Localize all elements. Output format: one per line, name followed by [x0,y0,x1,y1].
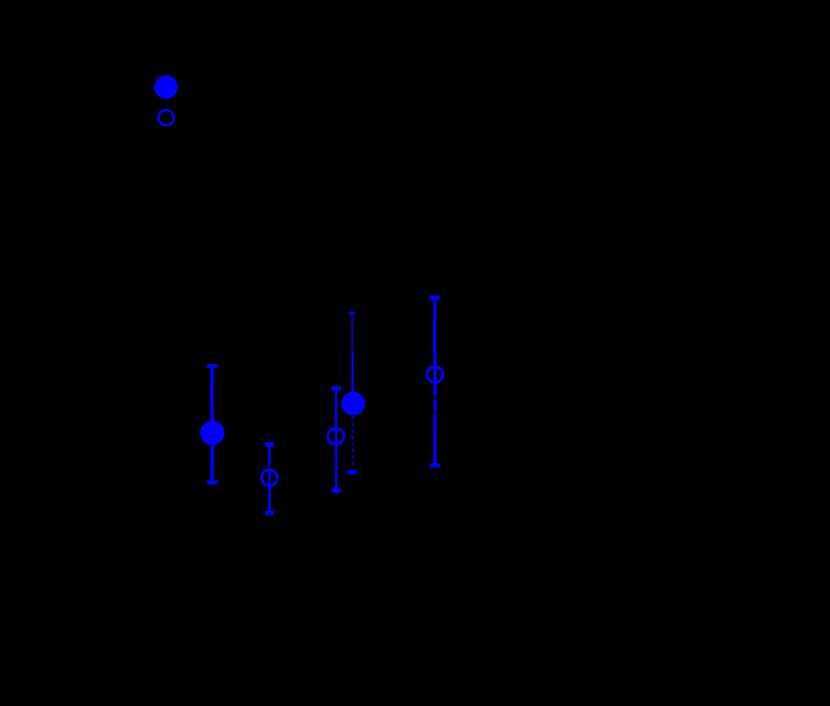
P4 top cap (small) [349,312,355,315]
legend marker: filled-circle series [154,75,178,99]
P4 bottom cap [347,470,356,475]
P2 top cap [265,442,274,447]
P5 bottom cap [430,463,440,467]
P4 dotted lower error line [352,416,354,466]
errorbar point P2 (open, x=269) : vertical error line upper [268,445,271,460]
errorbar point P3 (open, x=336) : vertical error line [335,388,338,490]
P3 bottom cap [332,488,341,493]
P5 diagonal sketch mark in line [434,410,437,415]
P5 open marker [427,367,443,383]
P4 filled marker [341,392,365,416]
P2 slanted dash in line [268,460,271,467]
errorbar point P4 (filled, x=352) : thin upper error line [351,314,353,353]
P3 top cap [332,386,341,391]
errorbar point P5 (open, x=435) : vertical error line [433,298,437,466]
legend marker: open-circle series [158,110,173,125]
P1 top cap [207,364,218,368]
P1 filled marker [200,421,224,445]
P2 bottom cap [265,511,274,516]
P2 open marker [262,470,278,486]
P2 vertical error line lower [268,469,271,513]
P5 line gaps (background-colored) below marker [433,397,438,415]
P5 top cap [430,295,440,299]
P3 open marker (sketchy) [328,428,344,444]
P4 mid error line [352,353,354,393]
P1 bottom cap [207,480,218,484]
errorbar point P1 (filled, x=212) : vertical error line [210,366,214,483]
